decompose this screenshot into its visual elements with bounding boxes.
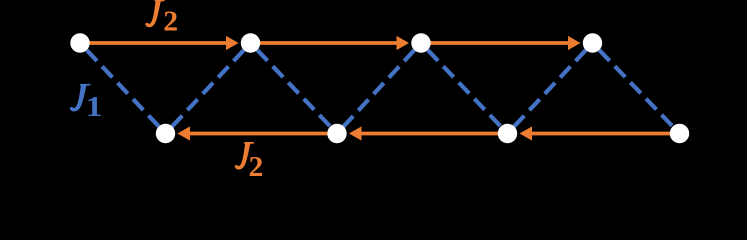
label J1 [70,84,103,123]
wire J1 dashed: top4 to bottom3 [508,43,593,134]
node top4 [583,33,602,52]
wire J1 dashed: top2 to bottom2 [251,43,338,134]
node bottom4 [670,124,689,143]
wire J1 dashed: top4 to bottom4 [593,43,680,134]
wire J1 dashed: top3 to bottom3 [421,43,508,134]
node bottom3 [498,124,517,143]
wire J1 dashed: top3 to bottom2 [337,43,421,134]
node top3 [411,33,430,52]
label J2 top [145,0,178,37]
wire J2 arrow: top1 to top2 [80,36,239,50]
node bottom1 [156,124,175,143]
wire J2 arrow: bottom2 to bottom1 [178,126,338,140]
node top1 [70,33,89,52]
svg-text:2: 2 [249,151,264,177]
wire J2 arrow: bottom4 to bottom3 [520,126,680,140]
svg-text:2: 2 [163,6,178,37]
wire J2 arrow: top3 to top4 [421,36,581,50]
wire J2 arrow: top2 to top3 [251,36,410,50]
svg-text:1: 1 [86,90,103,122]
label J2 bottom [235,142,263,183]
wire J1 dashed: top2 to bottom1 [166,43,251,134]
wire J1 dashed: top1 to bottom1 [80,43,166,134]
wire J2 arrow: bottom3 to bottom2 [349,126,508,140]
node bottom2 [327,124,346,143]
node top2 [241,33,260,52]
